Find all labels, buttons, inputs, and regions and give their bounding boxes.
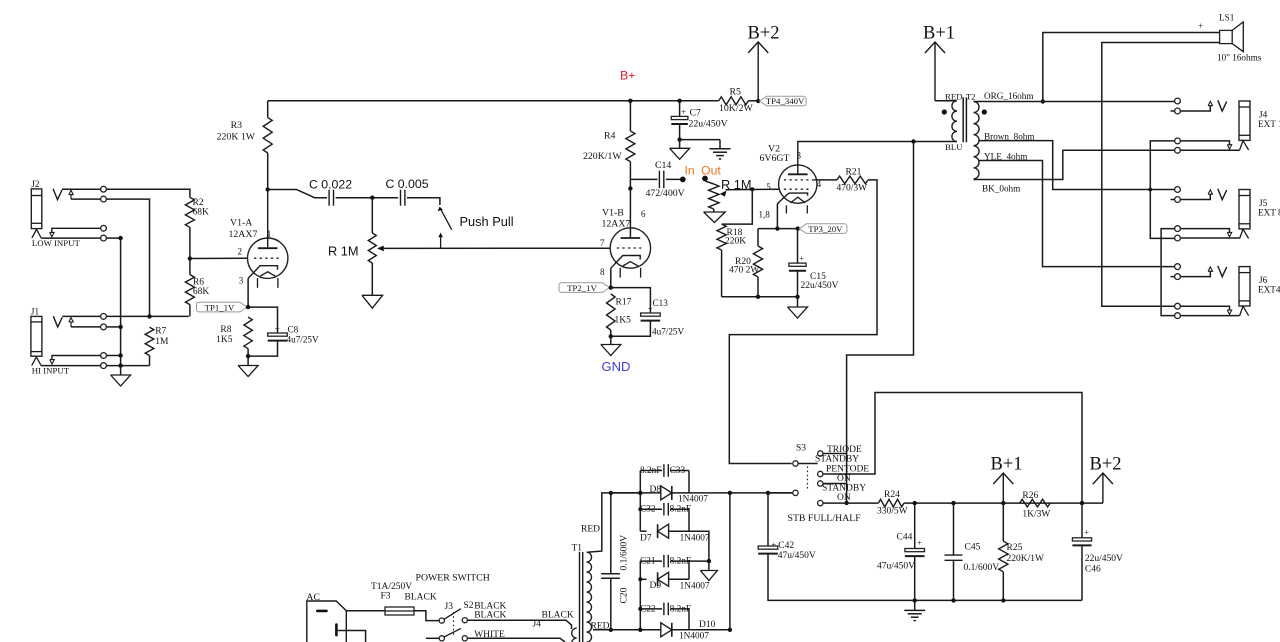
junction bbox=[118, 325, 122, 329]
switch push-pull blade bbox=[438, 207, 443, 212]
ground rectifier bbox=[708, 561, 710, 570]
wire bbox=[798, 463, 817, 465]
wire jack chain J4-J5 bbox=[1150, 141, 1174, 239]
svg-text:7: 7 bbox=[600, 238, 605, 248]
V symbol bbox=[1218, 100, 1227, 111]
svg-text:R17: R17 bbox=[616, 298, 632, 308]
wire rectifier + bus bbox=[689, 492, 792, 494]
wire bbox=[189, 227, 191, 274]
wire bbox=[149, 356, 151, 366]
earth ground bottom bbox=[914, 600, 916, 610]
svg-text:10" 16ohms: 10" 16ohms bbox=[1217, 53, 1262, 63]
svg-text:C33: C33 bbox=[670, 466, 686, 476]
svg-text:+: + bbox=[1084, 527, 1089, 537]
svg-text:220K: 220K bbox=[725, 237, 746, 247]
wire T1 secondary top RED bbox=[589, 493, 640, 552]
wire bbox=[71, 326, 101, 328]
resistor R5 bbox=[719, 97, 749, 105]
resistor R26 bbox=[1020, 499, 1051, 507]
resistor R6 bbox=[185, 275, 194, 305]
wire bbox=[768, 554, 1082, 601]
svg-text:6: 6 bbox=[641, 209, 646, 219]
switch S2 contact a bbox=[462, 618, 467, 623]
ground C7 bbox=[679, 140, 681, 149]
svg-text:C13: C13 bbox=[653, 298, 669, 308]
svg-text:+: + bbox=[771, 540, 776, 550]
wire PENTODE contact bbox=[823, 393, 1082, 503]
svg-text:1K/3W: 1K/3W bbox=[1022, 510, 1050, 520]
svg-text:STANDBY: STANDBY bbox=[815, 455, 859, 465]
svg-text:8.2nF: 8.2nF bbox=[640, 466, 661, 476]
capacitor C22 bbox=[640, 608, 662, 610]
svg-text:BLACK: BLACK bbox=[474, 610, 506, 620]
svg-text:1N4007: 1N4007 bbox=[680, 534, 710, 544]
svg-text:68K: 68K bbox=[193, 208, 210, 218]
jack J1 shorting contacts bbox=[101, 353, 107, 359]
wire bbox=[1081, 545, 1083, 600]
svg-text:47u/450V: 47u/450V bbox=[877, 562, 915, 572]
svg-text:10K/2W: 10K/2W bbox=[719, 103, 753, 114]
svg-text:TP4_340V: TP4_340V bbox=[766, 96, 805, 106]
wire jack chain J5-J6 bbox=[1161, 229, 1175, 316]
svg-text:12AX7: 12AX7 bbox=[229, 229, 258, 240]
svg-text:J3: J3 bbox=[445, 602, 454, 612]
ground J1 bbox=[111, 375, 131, 386]
wire raw B+ to S3 bbox=[768, 492, 793, 494]
capacitor C46 bbox=[1081, 503, 1083, 538]
jack J1 tip V symbol bbox=[53, 316, 62, 327]
wire bbox=[71, 198, 101, 200]
wire bbox=[935, 100, 957, 102]
wire bbox=[407, 198, 440, 205]
wire ORG 16ohm bbox=[974, 101, 1175, 103]
svg-text:C44: C44 bbox=[897, 533, 913, 543]
svg-text:330/5W: 330/5W bbox=[877, 507, 908, 517]
junction bbox=[844, 501, 848, 505]
wire J2 tip to R2 bbox=[106, 189, 189, 197]
svg-text:1: 1 bbox=[267, 229, 272, 239]
jack J5 lower contacts bbox=[1175, 226, 1181, 232]
svg-text:LOW INPUT: LOW INPUT bbox=[32, 238, 81, 248]
wire bbox=[62, 315, 100, 317]
svg-text:220K 1W: 220K 1W bbox=[217, 132, 256, 143]
wire bbox=[106, 326, 120, 328]
svg-text:C8: C8 bbox=[288, 325, 299, 335]
capacitor C33 bbox=[640, 470, 662, 472]
svg-text:BLU: BLU bbox=[945, 142, 963, 152]
testpoint TP2_1V bbox=[559, 283, 610, 293]
wire bbox=[611, 288, 651, 313]
wire V2 cathode lead bbox=[777, 202, 779, 229]
pot wiper arrow bbox=[720, 191, 727, 197]
junction bbox=[609, 334, 613, 338]
svg-text:TP3_20V: TP3_20V bbox=[808, 224, 843, 234]
svg-text:POWER SWITCH: POWER SWITCH bbox=[416, 573, 490, 584]
wire sleeve row bbox=[106, 365, 149, 367]
svg-text:22u/450V: 22u/450V bbox=[1085, 554, 1123, 564]
junction bbox=[911, 139, 915, 143]
wire ON lower contact bbox=[823, 502, 878, 504]
resistor R2 bbox=[185, 197, 194, 227]
wire bbox=[41, 365, 101, 367]
svg-text:In: In bbox=[685, 164, 695, 178]
resistor R7 bbox=[145, 327, 154, 355]
power arrow B+2 bbox=[1093, 473, 1113, 484]
svg-text:Out: Out bbox=[701, 164, 721, 178]
svg-text:3: 3 bbox=[797, 151, 802, 161]
wire TRIODE contact bbox=[823, 453, 847, 455]
power arrow B+1 bbox=[993, 473, 1013, 484]
ground V2 cathode bbox=[797, 297, 799, 307]
svg-text:0.1/600V: 0.1/600V bbox=[964, 563, 1000, 573]
svg-text:ON: ON bbox=[837, 474, 851, 484]
resistor R25 bbox=[1002, 503, 1004, 541]
jack J4 body bbox=[1239, 101, 1250, 140]
ground bbox=[247, 356, 249, 365]
capacitor C20 bbox=[609, 491, 613, 495]
svg-text:C46: C46 bbox=[1085, 565, 1101, 575]
wire bbox=[1171, 110, 1175, 112]
capacitor C15 bbox=[797, 229, 799, 264]
wire bbox=[721, 250, 723, 297]
wire bbox=[639, 561, 641, 630]
wire bbox=[666, 178, 682, 180]
svg-text:HI INPUT: HI INPUT bbox=[32, 366, 70, 376]
switch S2 blade a bbox=[444, 609, 461, 620]
svg-text:J4: J4 bbox=[1259, 110, 1268, 120]
svg-text:22u/450V: 22u/450V bbox=[801, 281, 839, 291]
junction bbox=[118, 353, 122, 357]
jack J2 tip V symbol bbox=[53, 189, 62, 200]
junction plate node bbox=[266, 187, 270, 191]
capacitor C42 bbox=[767, 493, 769, 546]
wire bbox=[610, 330, 612, 336]
junction cathode bbox=[775, 226, 779, 230]
wire to speaker + bbox=[1043, 33, 1220, 102]
svg-text:B+2: B+2 bbox=[1090, 455, 1122, 475]
wire ON upper contact bbox=[823, 483, 847, 485]
svg-text:472/400V: 472/400V bbox=[646, 188, 685, 199]
jack J6 body bbox=[1239, 267, 1250, 306]
svg-text:1,8: 1,8 bbox=[759, 210, 771, 220]
svg-text:4u7/25V: 4u7/25V bbox=[287, 335, 320, 345]
resistor R4 bbox=[626, 131, 635, 162]
junction bbox=[628, 186, 632, 190]
ground V1-B bbox=[610, 336, 612, 344]
wire bbox=[729, 493, 731, 630]
junction bbox=[728, 628, 732, 632]
wire bbox=[1180, 141, 1229, 145]
switch push-pull lower contact bbox=[438, 233, 443, 238]
svg-text:J5: J5 bbox=[1259, 198, 1268, 208]
capacitor C 0.022 bbox=[328, 190, 330, 206]
V symbol bbox=[1218, 266, 1227, 277]
svg-text:+: + bbox=[1198, 21, 1203, 31]
svg-text:8: 8 bbox=[600, 267, 605, 277]
svg-text:1K5: 1K5 bbox=[216, 335, 233, 345]
svg-text:B+2: B+2 bbox=[748, 24, 780, 44]
tube V1-B 12AX7 bbox=[610, 228, 650, 268]
jack J6 lower contacts bbox=[1175, 303, 1181, 309]
wire bbox=[189, 305, 191, 317]
wire bbox=[797, 271, 799, 297]
resistor R18 bbox=[717, 224, 726, 250]
svg-text:C42: C42 bbox=[778, 541, 794, 551]
svg-text:S2: S2 bbox=[464, 601, 474, 611]
switch S2 pole a bbox=[439, 618, 444, 623]
wire V2 plate to T2 bbox=[798, 141, 957, 143]
wire bbox=[1171, 276, 1175, 278]
junction bbox=[796, 226, 800, 230]
svg-text:+: + bbox=[275, 323, 280, 333]
junction bbox=[750, 187, 754, 191]
svg-text:Brown_8ohm: Brown_8ohm bbox=[984, 131, 1035, 141]
jack J6 contacts bbox=[1175, 264, 1181, 270]
speaker LS1 bbox=[1220, 30, 1233, 43]
svg-text:8.2nF: 8.2nF bbox=[670, 604, 691, 614]
wire bbox=[106, 237, 120, 239]
jack J2 contact circles bbox=[101, 186, 107, 192]
svg-text:GND: GND bbox=[602, 359, 631, 374]
wire bbox=[688, 561, 690, 579]
jack J2 sleeve arrow bbox=[52, 228, 101, 232]
wire B+ rail bbox=[268, 100, 719, 102]
wire bbox=[639, 471, 641, 532]
wire bbox=[748, 100, 764, 102]
switch S2 pole b bbox=[439, 636, 444, 641]
svg-text:R6: R6 bbox=[193, 278, 204, 288]
node In bbox=[680, 177, 686, 183]
wire bbox=[1180, 229, 1229, 233]
wire bbox=[346, 610, 385, 612]
svg-text:R8: R8 bbox=[220, 325, 231, 335]
wire J2 lower to R7 node bbox=[106, 199, 149, 316]
svg-text:V1-B: V1-B bbox=[602, 208, 624, 219]
svg-text:47u/450V: 47u/450V bbox=[778, 551, 816, 561]
connector J2 body bbox=[31, 189, 42, 229]
potentiometer R 1M (V2 grid) bbox=[705, 181, 714, 184]
svg-text:TP2_1V: TP2_1V bbox=[567, 283, 597, 293]
jack J2 shorting contacts bbox=[101, 225, 107, 231]
svg-text:EXT 16: EXT 16 bbox=[1258, 119, 1280, 129]
svg-text:R21: R21 bbox=[846, 168, 862, 178]
wire bbox=[722, 189, 753, 224]
wire bbox=[1171, 199, 1175, 201]
jack J5 body bbox=[1239, 190, 1250, 229]
wire bbox=[248, 307, 277, 333]
svg-text:R24: R24 bbox=[884, 490, 900, 500]
testpoint TP3_20V bbox=[799, 224, 847, 234]
wire bbox=[1002, 572, 1004, 601]
svg-text:220K/1W: 220K/1W bbox=[583, 151, 622, 162]
power arrow B+2 top bbox=[748, 42, 768, 53]
V symbol bbox=[1218, 189, 1227, 200]
svg-text:6V6GT: 6V6GT bbox=[760, 153, 790, 164]
wire cathode V1-B bbox=[610, 268, 612, 287]
svg-text:R25: R25 bbox=[1007, 543, 1023, 553]
svg-text:C21: C21 bbox=[640, 557, 656, 567]
resistor R17 bbox=[607, 294, 616, 330]
switch S2 blade b bbox=[444, 628, 461, 637]
wire R21 to switch bbox=[729, 180, 877, 464]
svg-text:C 0.005: C 0.005 bbox=[386, 177, 429, 191]
wire cathode bus bbox=[758, 228, 798, 230]
svg-text:0.1/600V: 0.1/600V bbox=[620, 535, 630, 571]
svg-text:J2: J2 bbox=[31, 179, 40, 189]
wire bbox=[62, 188, 101, 190]
svg-text:RED: RED bbox=[591, 622, 610, 632]
wire tip stub bbox=[1180, 106, 1210, 111]
svg-text:C32: C32 bbox=[640, 505, 656, 515]
svg-text:T2: T2 bbox=[966, 92, 976, 102]
junction bbox=[118, 363, 122, 367]
jack J4 contacts bbox=[1175, 98, 1181, 104]
wire bbox=[248, 341, 277, 357]
wire bbox=[1180, 306, 1229, 310]
svg-text:8.2nF: 8.2nF bbox=[670, 557, 691, 567]
connector J1 body bbox=[31, 316, 42, 356]
AC plug bbox=[307, 601, 347, 642]
wire bbox=[106, 355, 120, 357]
svg-text:R26: R26 bbox=[1022, 491, 1038, 501]
wire bbox=[247, 349, 249, 356]
svg-text:RED: RED bbox=[945, 92, 963, 102]
wire bbox=[468, 620, 572, 629]
wire V1-A grid bbox=[190, 257, 248, 259]
diode D8 bbox=[610, 492, 661, 494]
svg-text:EXT4: EXT4 bbox=[1258, 285, 1280, 295]
svg-text:+: + bbox=[917, 538, 922, 548]
junction bbox=[246, 305, 250, 309]
jack J5 contacts bbox=[1175, 187, 1181, 193]
svg-text:RED: RED bbox=[581, 525, 600, 535]
svg-text:+: + bbox=[681, 107, 686, 117]
svg-text:EXT 8: EXT 8 bbox=[1258, 208, 1280, 218]
wire sleeve bbox=[1180, 149, 1239, 151]
capacitor C21 bbox=[640, 560, 662, 562]
svg-text:220K/1W: 220K/1W bbox=[1007, 554, 1045, 564]
svg-text:C20: C20 bbox=[620, 587, 630, 603]
capacitor C44 bbox=[914, 503, 916, 548]
svg-text:R 1M: R 1M bbox=[328, 244, 359, 259]
wire bbox=[688, 471, 690, 493]
svg-text:D9: D9 bbox=[650, 581, 662, 591]
svg-text:22u/450V: 22u/450V bbox=[689, 119, 728, 130]
wire YLE 4ohm bbox=[979, 161, 1175, 267]
capacitor C7 bbox=[679, 101, 681, 117]
svg-text:8.2nF: 8.2nF bbox=[670, 505, 691, 515]
resistor R8 bbox=[244, 317, 252, 349]
svg-text:J6: J6 bbox=[1259, 275, 1268, 285]
resistor R21 bbox=[837, 176, 868, 184]
svg-text:2: 2 bbox=[238, 247, 243, 257]
jack J4 lower contacts bbox=[1175, 138, 1181, 144]
wire D7 to ground bbox=[689, 531, 709, 561]
diode D10 bbox=[640, 629, 661, 631]
wire bbox=[371, 263, 373, 295]
svg-text:S3: S3 bbox=[796, 444, 806, 454]
capacitor C45 bbox=[953, 503, 955, 555]
resistor R24 bbox=[878, 499, 904, 507]
junction bbox=[707, 559, 711, 563]
tube V2 6V6GT bbox=[779, 165, 817, 203]
testpoint TP4_340V bbox=[760, 96, 807, 106]
ground pot bbox=[704, 212, 726, 223]
wire bbox=[268, 190, 327, 198]
wire Brown 8ohm bbox=[979, 141, 1175, 190]
svg-text:68K: 68K bbox=[193, 287, 210, 297]
svg-text:LS1: LS1 bbox=[1219, 12, 1235, 22]
diode D7 bbox=[640, 530, 646, 532]
svg-text:470 2W: 470 2W bbox=[729, 266, 759, 276]
earth ground bbox=[719, 140, 721, 149]
svg-text:TP1_1V: TP1_1V bbox=[205, 302, 235, 312]
wire cathode bbox=[247, 278, 249, 307]
svg-text:AC: AC bbox=[306, 592, 320, 603]
diode D9 bbox=[640, 578, 646, 580]
jack J1 sleeve arrow bbox=[52, 356, 101, 360]
svg-text:1K5: 1K5 bbox=[615, 316, 632, 326]
svg-text:1N4007: 1N4007 bbox=[678, 495, 708, 505]
junction bbox=[246, 354, 250, 358]
jack J1 contact circles bbox=[101, 314, 107, 320]
wire wiper to V1-B grid bbox=[384, 247, 611, 249]
svg-text:D7: D7 bbox=[640, 533, 652, 543]
svg-text:1N4007: 1N4007 bbox=[680, 581, 710, 591]
wire bbox=[338, 631, 366, 642]
junction grid node bbox=[188, 256, 192, 260]
wire ground bus bbox=[120, 238, 122, 375]
capacitor C13 bbox=[641, 313, 661, 316]
svg-text:TRIODE: TRIODE bbox=[827, 445, 862, 455]
wire R3 top bbox=[267, 101, 269, 118]
node Out bbox=[702, 176, 708, 182]
wire bbox=[688, 609, 690, 630]
svg-text:R3: R3 bbox=[231, 120, 243, 131]
ground R1M bbox=[362, 295, 383, 308]
svg-text:12AX7: 12AX7 bbox=[602, 219, 631, 230]
svg-text:B+1: B+1 bbox=[991, 455, 1023, 475]
wire J1 tip row bbox=[106, 315, 188, 317]
svg-text:470/3W: 470/3W bbox=[837, 184, 868, 194]
wire bottom rail bbox=[722, 296, 798, 298]
svg-text:D10: D10 bbox=[699, 620, 716, 630]
wire speaker - bbox=[1102, 43, 1220, 307]
wire bbox=[629, 101, 631, 131]
resistor R20 bbox=[757, 229, 759, 246]
wire bbox=[611, 321, 651, 337]
svg-text:D8: D8 bbox=[650, 485, 662, 495]
wire bbox=[336, 197, 399, 199]
testpoint TP1_1V bbox=[197, 302, 248, 312]
svg-text:ON: ON bbox=[837, 493, 851, 503]
svg-text:R5: R5 bbox=[730, 87, 742, 98]
wire B+1 rail bbox=[904, 502, 1103, 504]
wire bbox=[426, 637, 439, 639]
svg-text:T1A/250V: T1A/250V bbox=[371, 582, 412, 592]
jack J1 tip arrow bbox=[69, 318, 73, 322]
junction bbox=[756, 99, 760, 103]
capacitor C 0.005 bbox=[400, 190, 402, 206]
svg-text:V1-A: V1-A bbox=[230, 218, 252, 229]
svg-text:1N4007: 1N4007 bbox=[679, 632, 709, 642]
svg-text:J1: J1 bbox=[31, 307, 40, 317]
wire bbox=[41, 237, 100, 239]
svg-text:STB FULL/HALF: STB FULL/HALF bbox=[788, 513, 862, 524]
transformer T2 bbox=[952, 101, 957, 142]
wire T1 secondary bottom RED bbox=[593, 629, 640, 631]
wire bbox=[914, 556, 916, 600]
